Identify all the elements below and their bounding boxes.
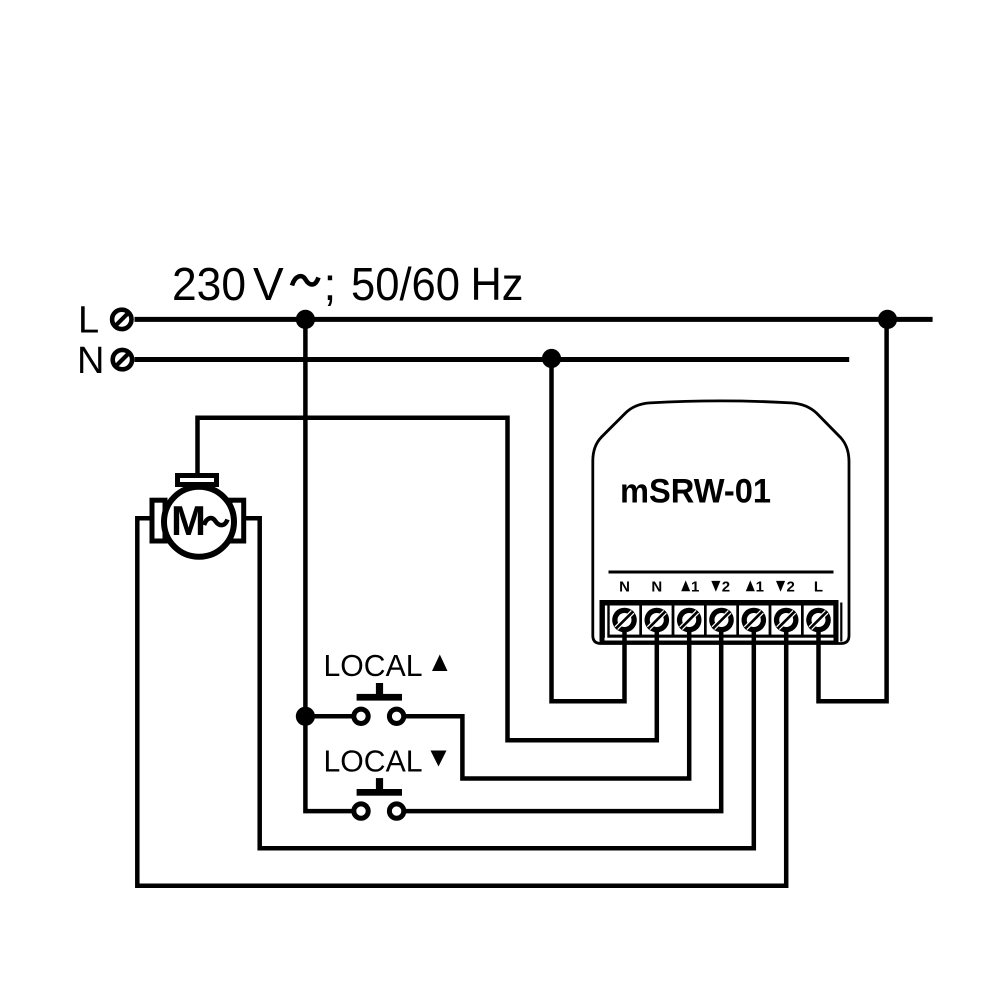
svg-text:50/60: 50/60 [351, 258, 460, 310]
svg-text:1: 1 [756, 578, 764, 595]
wire LOCAL down button to terminal 4 [406, 630, 721, 811]
svg-text:N: N [651, 578, 662, 595]
wire motor top to terminal 2 [198, 418, 657, 741]
svg-text:mSRW-01: mSRW-01 [620, 472, 771, 510]
label LOCAL up triangle [432, 655, 448, 672]
block left end slit [605, 606, 607, 641]
wire L bus line [135, 317, 933, 322]
svg-text:M: M [171, 497, 206, 544]
svg-text:L: L [814, 578, 823, 595]
pin label down-2 (pin 6) [776, 578, 795, 595]
wire L bus to terminal 7 [819, 319, 887, 701]
svg-text:230: 230 [172, 258, 246, 310]
terminal cell 4 [707, 606, 737, 635]
label LOCAL down triangle [431, 751, 447, 767]
wire left riser from L to buttons [305, 319, 351, 811]
pin label up-1 (pin 3) [681, 578, 699, 595]
motor M body circle [164, 487, 234, 557]
wire motor left to terminal 6 [137, 518, 786, 886]
screw terminal N (pin 2) [645, 608, 670, 633]
supply label 230V 50/60Hz [172, 258, 524, 310]
svg-text:Hz: Hz [471, 258, 524, 310]
junction dot at button branch [296, 707, 315, 726]
screw terminal up1 (pin 5) [742, 608, 767, 633]
separator line inside module [609, 571, 834, 574]
right seam line [840, 603, 842, 642]
motor M right cap [230, 500, 244, 541]
LOCAL down button actuator bar [357, 789, 402, 796]
svg-text:1: 1 [691, 578, 699, 595]
terminal cell 3 [674, 606, 704, 635]
pin label up-1 (pin 5) [746, 578, 764, 595]
junction dot on L bus at right drop [878, 310, 897, 329]
block lower gap band [605, 638, 834, 641]
LOCAL down button stem [376, 778, 383, 790]
wire N bus line [135, 357, 850, 362]
screw terminal down2 (pin 6) [774, 608, 799, 633]
LOCAL up button left contact [354, 709, 368, 723]
source terminal circle L [112, 310, 131, 329]
terminal cell 5 [739, 606, 769, 635]
terminal cell 1 [610, 606, 640, 635]
svg-text:N: N [77, 340, 104, 382]
svg-text:;: ; [324, 258, 337, 310]
motor M top cap [178, 476, 217, 485]
screw terminal N (pin 1) [612, 608, 637, 633]
terminal cell 2 [642, 606, 672, 635]
LOCAL down button right contact [389, 804, 403, 818]
svg-text:V: V [253, 258, 284, 310]
motor label tilde [204, 518, 228, 525]
svg-text:2: 2 [787, 578, 795, 595]
LOCAL up button right contact [389, 709, 403, 723]
terminal cell 7 [804, 606, 834, 635]
wire feed to LOCAL up button [305, 714, 351, 719]
screw terminal down2 (pin 4) [709, 608, 734, 633]
svg-text:N: N [619, 578, 630, 595]
screw terminal up1 (pin 3) [677, 608, 702, 633]
svg-text:L: L [78, 300, 99, 342]
svg-text:LOCAL: LOCAL [324, 744, 423, 779]
motor M left cap [152, 500, 165, 541]
wire N bus to terminal 1 [552, 359, 625, 702]
LOCAL down button left contact [354, 804, 368, 818]
terminal cell 6 [771, 606, 801, 635]
wire motor right to terminal 5 [246, 518, 754, 848]
LOCAL up button stem [376, 683, 383, 695]
svg-text:2: 2 [722, 578, 730, 595]
module mSRW-01 shell [593, 401, 849, 644]
screw terminal L (pin 7) [806, 608, 831, 633]
junction dot on N bus [542, 349, 561, 368]
pin label down-2 (pin 4) [711, 578, 730, 595]
terminal block frame [600, 600, 839, 645]
LOCAL up button actuator bar [357, 694, 402, 701]
source terminal circle N [113, 350, 132, 369]
wire LOCAL up button to terminal 3 [406, 630, 689, 779]
svg-text:LOCAL: LOCAL [324, 648, 423, 683]
junction dot on L bus at riser [296, 310, 315, 329]
